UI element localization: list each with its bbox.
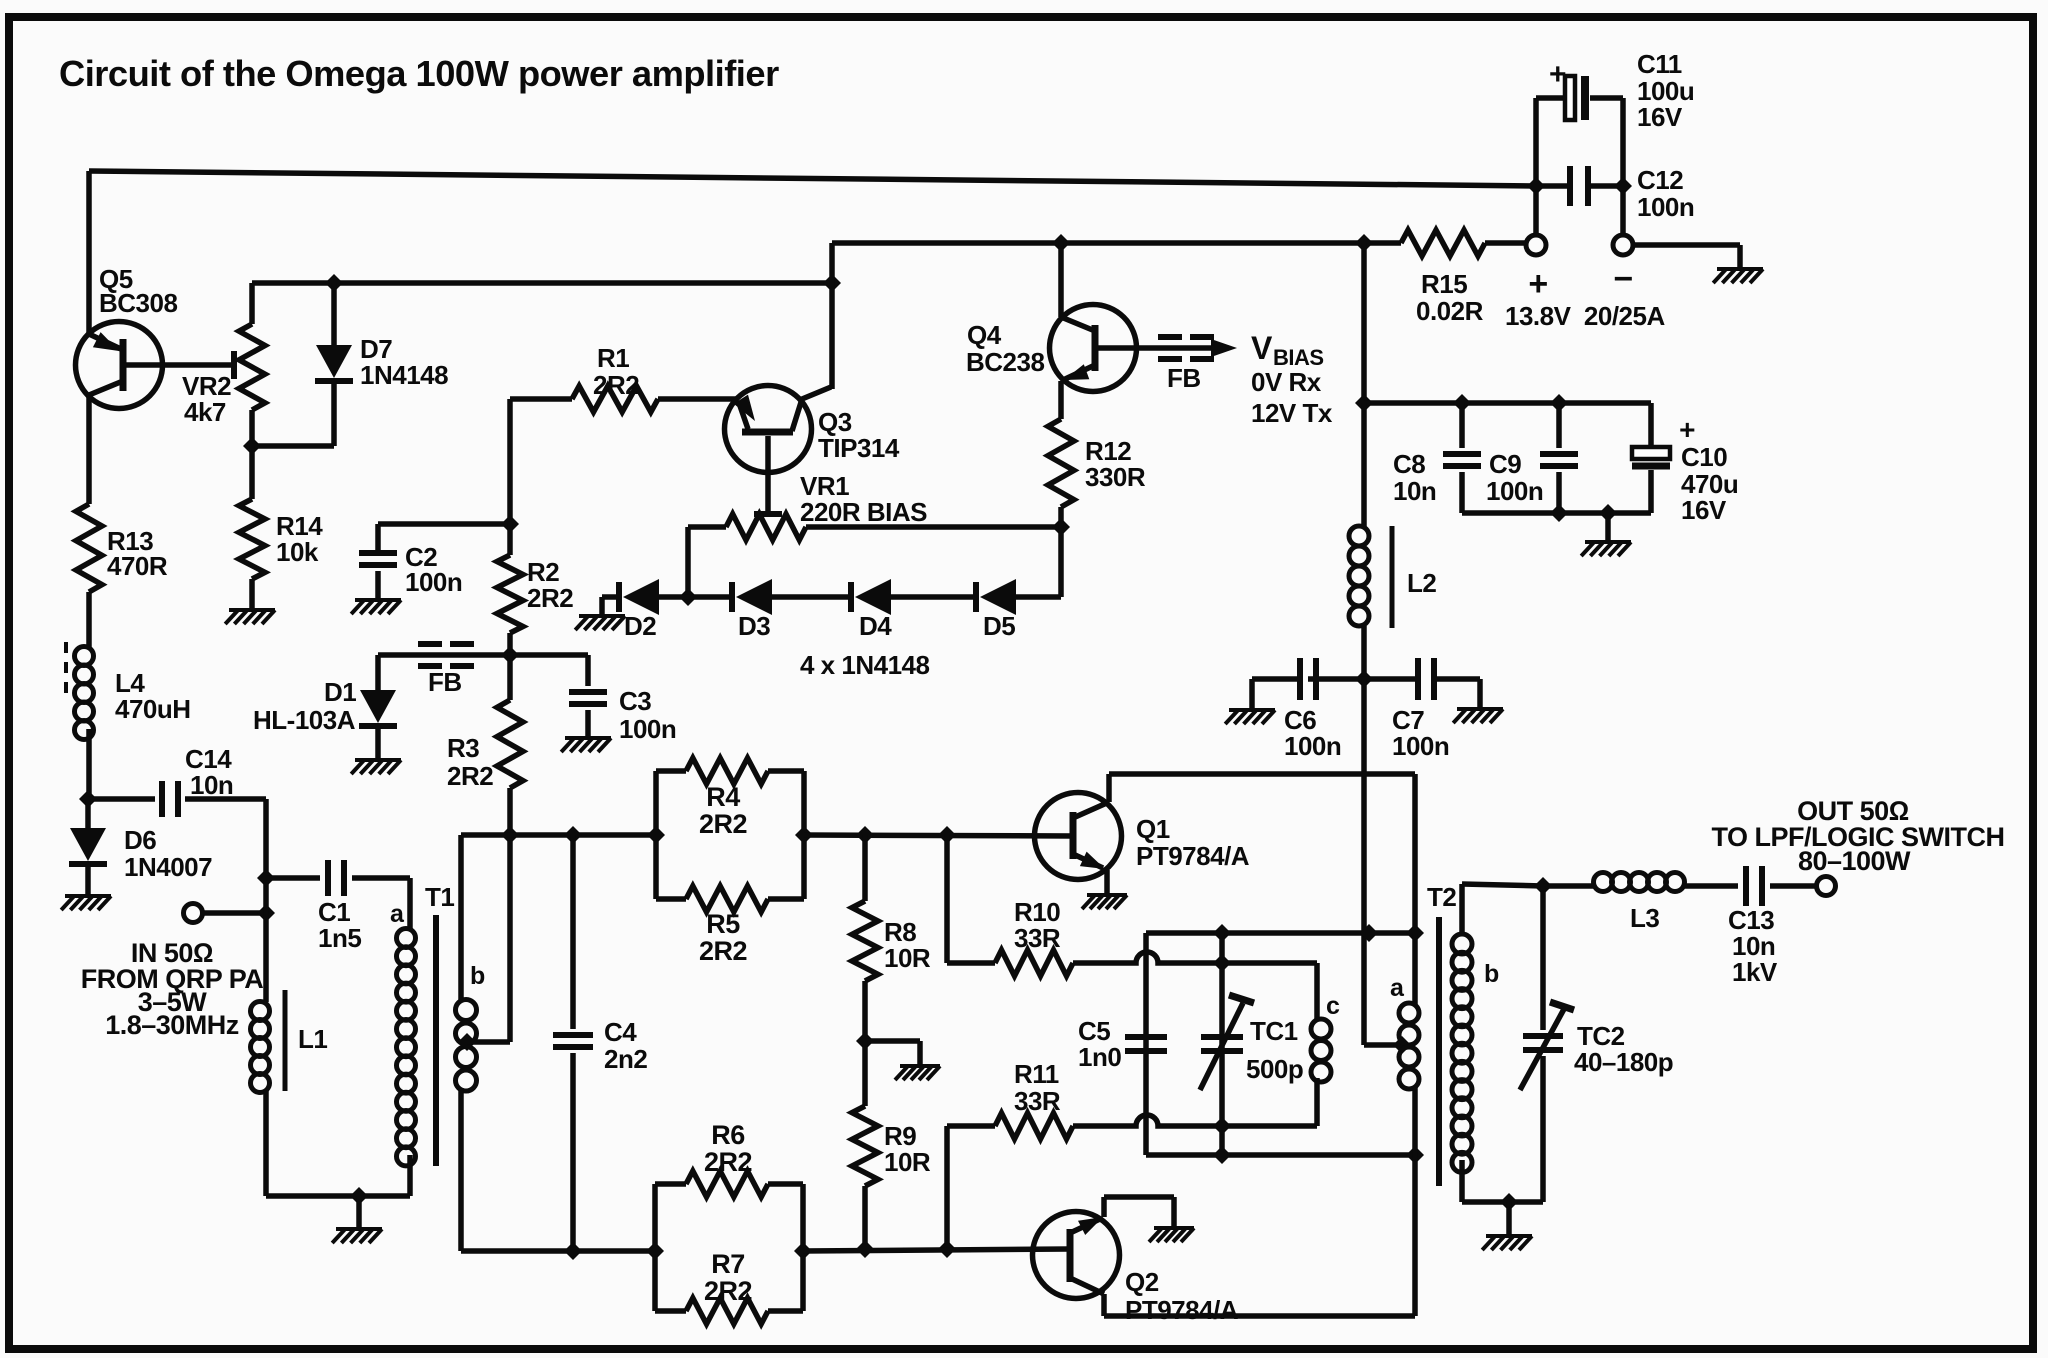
svg-text:Q2: Q2 [1125, 1267, 1159, 1297]
svg-text:BC308: BC308 [99, 288, 177, 318]
svg-text:2R2: 2R2 [593, 370, 639, 400]
svg-text:D5: D5 [983, 611, 1015, 641]
svg-text:10k: 10k [276, 537, 319, 567]
svg-text:33R: 33R [1014, 923, 1061, 953]
svg-text:16V: 16V [1681, 495, 1727, 525]
svg-text:R6: R6 [711, 1120, 745, 1150]
svg-text:0.02R: 0.02R [1416, 296, 1484, 326]
svg-text:R4: R4 [706, 782, 740, 812]
svg-text:C9: C9 [1489, 449, 1521, 479]
svg-text:R3: R3 [447, 733, 479, 763]
svg-text:2R2: 2R2 [699, 936, 747, 966]
svg-text:D4: D4 [859, 611, 892, 641]
svg-text:0V Rx: 0V Rx [1251, 367, 1322, 397]
svg-text:Q4: Q4 [967, 320, 1002, 350]
svg-text:1n0: 1n0 [1078, 1042, 1121, 1072]
svg-text:16V: 16V [1637, 102, 1683, 132]
svg-text:FB: FB [428, 667, 462, 697]
svg-text:b: b [1484, 960, 1499, 988]
svg-text:R7: R7 [711, 1249, 745, 1279]
svg-text:100n: 100n [405, 567, 462, 597]
svg-text:220R BIAS: 220R BIAS [800, 497, 927, 527]
svg-text:TIP314: TIP314 [818, 433, 900, 463]
svg-text:C8: C8 [1393, 449, 1425, 479]
svg-text:13.8V 20/25A: 13.8V 20/25A [1505, 301, 1665, 331]
svg-text:R1: R1 [597, 343, 629, 373]
svg-text:10n: 10n [190, 770, 233, 800]
svg-text:470R: 470R [107, 551, 168, 581]
svg-text:T1: T1 [425, 882, 454, 912]
svg-text:100n: 100n [619, 714, 676, 744]
svg-text:C11: C11 [1637, 49, 1682, 79]
svg-text:100n: 100n [1284, 731, 1341, 761]
svg-text:1.8–30MHz: 1.8–30MHz [105, 1010, 239, 1040]
svg-text:12V Tx: 12V Tx [1251, 398, 1333, 428]
svg-text:2R2: 2R2 [447, 761, 493, 791]
svg-text:a: a [1390, 974, 1405, 1002]
svg-text:D6: D6 [124, 825, 156, 855]
svg-text:2R2: 2R2 [527, 583, 573, 613]
svg-text:1N4148: 1N4148 [360, 360, 448, 390]
svg-text:HL-103A: HL-103A [253, 705, 356, 735]
svg-text:PT9784/A: PT9784/A [1125, 1295, 1239, 1325]
svg-text:40–180p: 40–180p [1574, 1047, 1673, 1077]
svg-text:1N4007: 1N4007 [124, 852, 212, 882]
svg-text:2R2: 2R2 [704, 1147, 752, 1177]
svg-text:1n5: 1n5 [318, 923, 361, 953]
svg-text:+: + [1528, 265, 1547, 303]
svg-text:D2: D2 [624, 611, 656, 641]
svg-text:C3: C3 [619, 686, 651, 716]
svg-text:V: V [1251, 330, 1273, 366]
svg-text:470uH: 470uH [115, 694, 191, 724]
svg-text:500p: 500p [1246, 1054, 1303, 1084]
svg-text:100n: 100n [1637, 192, 1694, 222]
svg-text:4k7: 4k7 [184, 397, 226, 427]
svg-text:R5: R5 [706, 909, 740, 939]
svg-text:T2: T2 [1427, 882, 1456, 912]
svg-text:R15: R15 [1421, 269, 1467, 299]
svg-text:2n2: 2n2 [604, 1044, 647, 1074]
svg-text:100n: 100n [1486, 476, 1543, 506]
svg-text:33R: 33R [1014, 1086, 1061, 1116]
svg-text:FB: FB [1167, 363, 1201, 393]
svg-text:+: + [1679, 414, 1695, 445]
svg-text:2R2: 2R2 [699, 809, 747, 839]
svg-text:R11: R11 [1014, 1059, 1059, 1089]
svg-text:D1: D1 [324, 677, 356, 707]
svg-text:c: c [1326, 992, 1340, 1020]
svg-text:C4: C4 [604, 1017, 637, 1047]
svg-text:4 x 1N4148: 4 x 1N4148 [800, 650, 929, 680]
svg-text:2R2: 2R2 [704, 1276, 752, 1306]
svg-text:TC1: TC1 [1250, 1016, 1298, 1046]
svg-text:BC238: BC238 [966, 347, 1044, 377]
svg-text:L3: L3 [1630, 903, 1659, 933]
svg-text:Q1: Q1 [1136, 814, 1170, 844]
svg-text:−: − [1613, 260, 1632, 298]
svg-text:10R: 10R [884, 943, 931, 973]
svg-text:10R: 10R [884, 1147, 931, 1177]
svg-text:80–100W: 80–100W [1798, 846, 1911, 876]
svg-text:PT9784/A: PT9784/A [1136, 841, 1250, 871]
svg-text:10n: 10n [1393, 476, 1436, 506]
svg-text:1kV: 1kV [1732, 957, 1778, 987]
svg-text:C10: C10 [1681, 442, 1727, 472]
svg-text:C12: C12 [1637, 165, 1683, 195]
svg-text:100n: 100n [1392, 731, 1449, 761]
svg-text:D3: D3 [738, 611, 770, 641]
svg-text:b: b [470, 962, 485, 990]
svg-text:a: a [390, 900, 405, 928]
svg-text:L2: L2 [1407, 568, 1436, 598]
svg-text:+: + [1549, 58, 1566, 91]
svg-text:330R: 330R [1085, 462, 1146, 492]
svg-text:Circuit of the Omega 100W powe: Circuit of the Omega 100W power amplifie… [59, 53, 779, 94]
svg-text:L1: L1 [298, 1024, 327, 1054]
